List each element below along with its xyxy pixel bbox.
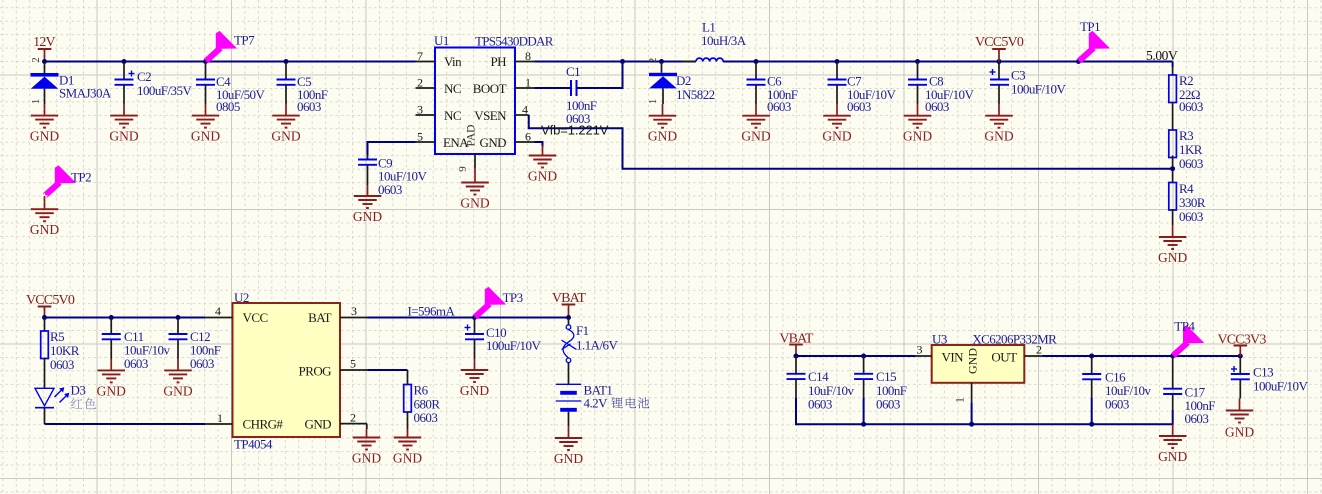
svg-text:GND: GND bbox=[1158, 449, 1187, 464]
ground for C8 bbox=[903, 104, 932, 144]
svg-text:NC: NC bbox=[444, 108, 461, 123]
wire VSEN feedback to divider bbox=[529, 115, 1173, 169]
svg-text:D2: D2 bbox=[676, 73, 691, 88]
ground for U2 pin2 bbox=[352, 429, 381, 466]
net label Vfb=1.221V bbox=[541, 123, 609, 138]
node junction C6 on 5V rail bbox=[754, 59, 759, 64]
pin 2 GND of U2 bbox=[340, 411, 367, 425]
ground for C6 bbox=[741, 104, 770, 144]
capacitor C4 10uF/50V bbox=[196, 62, 265, 115]
svg-text:0603: 0603 bbox=[767, 99, 791, 114]
svg-text:GND: GND bbox=[353, 209, 382, 224]
svg-text:0603: 0603 bbox=[1105, 397, 1129, 412]
test point TP3 bbox=[475, 287, 523, 317]
svg-text:100uF/10V: 100uF/10V bbox=[1011, 82, 1066, 97]
svg-text:R5: R5 bbox=[50, 329, 64, 344]
svg-text:GND: GND bbox=[648, 129, 677, 144]
capacitor C3 100uF/10V bbox=[990, 62, 1067, 105]
svg-text:0603: 0603 bbox=[124, 356, 148, 371]
pin 1 CHRG# of U2 bbox=[205, 411, 233, 425]
svg-text:0603: 0603 bbox=[190, 356, 214, 371]
node junction C12 on VCC rail bbox=[176, 315, 181, 320]
svg-text:C2: C2 bbox=[137, 69, 151, 84]
pin 5 ENA of U1 bbox=[416, 130, 436, 144]
diode D2 1N5822 schottky bbox=[647, 58, 715, 105]
capacitor C12 100nF bbox=[169, 318, 221, 372]
svg-text:TP3: TP3 bbox=[503, 290, 523, 305]
wire D3 cathode to U2 CHRG# bbox=[45, 408, 206, 424]
capacitor C15 100nF bbox=[854, 356, 907, 412]
svg-text:0603: 0603 bbox=[876, 397, 900, 412]
svg-text:10uH/3A: 10uH/3A bbox=[701, 33, 747, 48]
LED D3 red bbox=[35, 383, 85, 408]
resistor R3 1KR bbox=[1169, 128, 1203, 183]
ground for ldo rail bbox=[1158, 424, 1187, 464]
wire U1 pin6 to ground bbox=[535, 142, 543, 147]
svg-text:GND: GND bbox=[528, 169, 557, 184]
svg-text:C15: C15 bbox=[876, 369, 896, 384]
svg-text:Vin: Vin bbox=[444, 54, 462, 69]
power port 12V bbox=[33, 35, 55, 62]
node junction C4/TP7 on 12V rail bbox=[203, 59, 208, 64]
node junction bootstrap on PH wire bbox=[620, 59, 625, 64]
svg-text:4: 4 bbox=[215, 304, 221, 318]
svg-text:3: 3 bbox=[417, 103, 423, 117]
capacitor C6 100nF bbox=[747, 62, 798, 115]
svg-text:GND: GND bbox=[554, 451, 583, 466]
svg-text:PH: PH bbox=[490, 54, 506, 69]
ground for R6 bbox=[393, 429, 422, 466]
ground for C13 bbox=[1225, 399, 1254, 440]
svg-text:5: 5 bbox=[350, 357, 356, 371]
pin 2 OUT of U3 bbox=[1024, 343, 1042, 357]
svg-text:GND: GND bbox=[163, 383, 192, 398]
wire BOOT to C1 bbox=[535, 87, 572, 89]
node junction C11 on VCC rail bbox=[109, 315, 114, 320]
svg-text:1: 1 bbox=[953, 397, 967, 403]
svg-text:VCC5V0: VCC5V0 bbox=[26, 293, 75, 308]
svg-text:SMAJ30A: SMAJ30A bbox=[59, 86, 112, 101]
svg-text:TP4: TP4 bbox=[1174, 319, 1195, 334]
svg-text:0603: 0603 bbox=[808, 397, 832, 412]
ground for C12 bbox=[163, 359, 192, 399]
node junction C15 on VBAT rail bbox=[861, 354, 866, 359]
wire 5V rail corner down to R2 bbox=[1172, 62, 1174, 68]
wire VCC5V0 rail to U2 pin4 bbox=[45, 317, 206, 319]
ground for C3 bbox=[984, 104, 1013, 144]
test point TP1 bbox=[1079, 19, 1110, 61]
wire PROG to R6 bbox=[368, 369, 408, 371]
svg-text:R3: R3 bbox=[1179, 128, 1193, 143]
ground for U1 pin6 bbox=[528, 145, 557, 184]
test point TP7 bbox=[206, 31, 255, 61]
ground for C11 bbox=[97, 359, 126, 399]
capacitor C13 100uF/10V bbox=[1231, 356, 1309, 399]
pin 1 BOOT of U1 bbox=[515, 76, 535, 90]
capacitor C10 100uF/10V bbox=[465, 318, 542, 359]
svg-text:5.00V: 5.00V bbox=[1146, 48, 1178, 63]
value label red color for D3 bbox=[71, 398, 96, 409]
node junction C7 on 5V rail bbox=[835, 59, 840, 64]
wire U2 pin2 to ground bbox=[366, 424, 368, 429]
svg-text:1: 1 bbox=[217, 411, 223, 425]
svg-text:Vfb=1.221V: Vfb=1.221V bbox=[541, 123, 609, 138]
capacitor C7 10uF/10V bbox=[828, 62, 897, 115]
svg-text:C13: C13 bbox=[1253, 365, 1273, 380]
node junction C16 bottom bbox=[1089, 422, 1094, 427]
svg-text:TP7: TP7 bbox=[234, 33, 255, 48]
ground for D1 bbox=[30, 104, 59, 144]
ground for C5 bbox=[271, 104, 300, 144]
pin 4 VSEN of U1 bbox=[515, 103, 529, 117]
inductor L1 10uH/3A bbox=[696, 20, 747, 62]
capacitor C14 10uF/10v bbox=[787, 356, 855, 412]
ground for R4 bbox=[1158, 225, 1187, 265]
wire U3 OUT to VCC3V3 bbox=[1042, 355, 1241, 357]
node junction D2 on PH node bbox=[659, 59, 664, 64]
svg-text:R6: R6 bbox=[414, 383, 429, 398]
svg-text:OUT: OUT bbox=[991, 350, 1017, 365]
svg-text:GND: GND bbox=[460, 383, 489, 398]
test point TP2 bbox=[42, 165, 92, 199]
ground for C7 bbox=[822, 104, 851, 144]
node junction D1 on 12V rail bbox=[42, 59, 47, 64]
pin 2 NC of U1 bbox=[416, 76, 436, 90]
svg-text:GND: GND bbox=[903, 129, 932, 144]
svg-text:0603: 0603 bbox=[1185, 411, 1209, 426]
svg-text:GND: GND bbox=[984, 129, 1013, 144]
capacitor C9 10uF/10V bbox=[358, 155, 427, 197]
svg-text:GND: GND bbox=[109, 129, 138, 144]
svg-text:4.2V: 4.2V bbox=[584, 396, 609, 411]
node junction C5 on 12V rail bbox=[284, 59, 289, 64]
node junction C15 bottom bbox=[861, 422, 866, 427]
resistor R5 10KR bbox=[41, 318, 80, 389]
wire ground return rail bbox=[796, 398, 1173, 424]
node junction C2 on 12V rail bbox=[122, 59, 127, 64]
svg-text:TP2: TP2 bbox=[71, 170, 91, 185]
ground for U1 pad pin 9 bbox=[460, 168, 489, 211]
svg-text:0603: 0603 bbox=[50, 357, 74, 372]
wire U3 pin1 to rail bbox=[971, 403, 973, 424]
svg-text:3: 3 bbox=[917, 343, 923, 357]
svg-text:GND: GND bbox=[30, 129, 59, 144]
svg-text:0603: 0603 bbox=[1179, 209, 1203, 224]
power port VBAT charger output bbox=[552, 291, 587, 318]
power port VCC5V0 charger input bbox=[26, 293, 75, 318]
node junction VCC3V3/C13 bbox=[1238, 354, 1243, 359]
svg-text:VCC: VCC bbox=[243, 310, 268, 325]
value label 4.2V lithium battery for BAT1 bbox=[584, 396, 650, 411]
svg-text:0603: 0603 bbox=[847, 99, 871, 114]
op-amp U3 XC6206P332MR ldo bbox=[932, 332, 1057, 383]
svg-text:GND: GND bbox=[304, 417, 331, 432]
svg-text:PROG: PROG bbox=[299, 364, 332, 379]
svg-text:0603: 0603 bbox=[297, 99, 321, 114]
svg-text:1N5822: 1N5822 bbox=[676, 87, 715, 102]
svg-text:GND: GND bbox=[966, 348, 980, 374]
node junction U3 pin1 bottom bbox=[969, 422, 974, 427]
pin 3 NC of U1 bbox=[416, 103, 436, 117]
svg-text:GND: GND bbox=[191, 129, 220, 144]
svg-text:7: 7 bbox=[417, 49, 423, 63]
svg-text:0603: 0603 bbox=[1179, 156, 1203, 171]
op-amp U2 TP4054 charger IC bbox=[233, 290, 341, 452]
wire C1 to PH node bbox=[577, 62, 623, 89]
svg-text:GND: GND bbox=[271, 129, 300, 144]
svg-text:VSEN: VSEN bbox=[474, 108, 507, 123]
svg-text:BOOT: BOOT bbox=[473, 81, 507, 96]
svg-text:U1: U1 bbox=[434, 33, 449, 48]
capacitor C1 100nF bootstrap bbox=[566, 64, 597, 126]
power port VCC3V3 bbox=[1217, 333, 1266, 357]
wire 12V rail to U1 pin7 bbox=[45, 61, 416, 63]
pin 5 PROG of U2 bbox=[340, 357, 368, 371]
ground for C10 bbox=[460, 359, 489, 399]
svg-text:6: 6 bbox=[525, 130, 531, 144]
svg-text:5: 5 bbox=[417, 130, 423, 144]
pin 6 GND of U1 bbox=[515, 130, 535, 144]
svg-text:VIN: VIN bbox=[942, 350, 965, 365]
svg-text:GND: GND bbox=[1225, 425, 1254, 440]
svg-text:2: 2 bbox=[417, 76, 423, 90]
fuse F1 1.1A/6V bbox=[562, 318, 619, 363]
wire ENA to C9 bbox=[368, 142, 416, 155]
svg-text:12V: 12V bbox=[33, 35, 55, 50]
ground for BAT1 bbox=[554, 426, 583, 466]
svg-text:TPS5430DDAR: TPS5430DDAR bbox=[475, 34, 554, 49]
svg-text:D3: D3 bbox=[71, 383, 86, 398]
svg-text:2: 2 bbox=[30, 57, 42, 63]
power port VBAT ldo input bbox=[779, 332, 814, 357]
svg-text:100uF/10V: 100uF/10V bbox=[486, 338, 541, 353]
node junction VCC5V0 on 5V rail bbox=[997, 59, 1002, 64]
svg-text:1: 1 bbox=[30, 99, 42, 105]
node junction C14 on VBAT rail bbox=[794, 354, 799, 359]
svg-text:R2: R2 bbox=[1179, 73, 1193, 88]
capacitor C8 10uF/10V bbox=[908, 62, 974, 115]
node junction C17/TP4 on 3V3 rail bbox=[1170, 354, 1175, 359]
pin 3 BAT of U2 bbox=[340, 304, 368, 318]
svg-text:4: 4 bbox=[522, 103, 528, 117]
pin 1 GND of U3 bbox=[953, 383, 972, 403]
svg-text:F1: F1 bbox=[576, 323, 589, 338]
pin 4 VCC of U2 bbox=[205, 304, 233, 318]
ground for C2 bbox=[109, 104, 138, 144]
capacitor C2 100uF/35V bbox=[115, 62, 193, 105]
diode D1 TVS SMAJ30A bbox=[30, 57, 112, 104]
svg-text:VBAT: VBAT bbox=[779, 332, 814, 347]
svg-text:1: 1 bbox=[525, 76, 531, 90]
svg-text:U2: U2 bbox=[234, 290, 249, 305]
svg-text:VBAT: VBAT bbox=[552, 291, 587, 306]
inductor L1 pin leads bbox=[682, 61, 737, 63]
svg-text:0805: 0805 bbox=[216, 99, 240, 114]
pin 7 Vin of U1 bbox=[416, 49, 436, 63]
resistor R4 330R bbox=[1169, 181, 1206, 225]
svg-text:GND: GND bbox=[393, 451, 422, 466]
pin 8 PH of U1 bbox=[515, 49, 535, 63]
svg-text:GND: GND bbox=[97, 383, 126, 398]
node junction feedback divider bbox=[1170, 166, 1175, 171]
svg-text:330R: 330R bbox=[1179, 195, 1206, 210]
svg-text:100uF/35V: 100uF/35V bbox=[137, 83, 192, 98]
wire VBAT to U3 VIN bbox=[796, 355, 916, 357]
svg-text:CHRG#: CHRG# bbox=[243, 417, 284, 432]
pin 9 PAD of U1 bbox=[457, 154, 475, 172]
svg-text:C14: C14 bbox=[808, 369, 829, 384]
svg-text:10KR: 10KR bbox=[50, 343, 80, 358]
wire C15 bottom to rail bbox=[863, 398, 865, 424]
svg-text:U3: U3 bbox=[932, 332, 947, 347]
svg-text:1: 1 bbox=[647, 99, 659, 105]
svg-text:1.1A/6V: 1.1A/6V bbox=[576, 338, 618, 353]
svg-text:TP1: TP1 bbox=[1080, 19, 1100, 34]
test point TP4 bbox=[1173, 319, 1204, 356]
ground for C9 bbox=[353, 185, 382, 224]
resistor R2 22ohm bbox=[1169, 67, 1203, 130]
wire BAT to VBAT node bbox=[368, 317, 569, 319]
power port VCC5V0 top bbox=[975, 35, 1024, 62]
svg-text:GND: GND bbox=[822, 129, 851, 144]
svg-text:GND: GND bbox=[741, 129, 770, 144]
svg-text:0603: 0603 bbox=[378, 182, 402, 197]
node junction R5 on VCC rail bbox=[42, 315, 47, 320]
node junction TP1 on 5V rail bbox=[1076, 59, 1081, 64]
svg-text:GND: GND bbox=[1158, 250, 1187, 265]
battery BAT1 4.2V lithium bbox=[556, 363, 613, 426]
svg-text:PAD: PAD bbox=[466, 125, 478, 147]
capacitor C5 100nF bbox=[277, 62, 328, 115]
pin 3 VIN of U3 bbox=[916, 343, 932, 357]
node junction C8 on 5V rail bbox=[915, 59, 920, 64]
svg-text:0603: 0603 bbox=[925, 99, 949, 114]
resistor R6 680R bbox=[404, 370, 441, 429]
svg-text:GND: GND bbox=[460, 196, 489, 211]
node junction C16 on 3V3 rail bbox=[1089, 354, 1094, 359]
capacitor C11 10uF/10v bbox=[102, 318, 171, 372]
current label I=596mA bbox=[408, 304, 456, 319]
ground for C4 bbox=[191, 104, 220, 144]
node junction VBAT/F1 bbox=[566, 315, 571, 320]
ground for TP2 bbox=[30, 196, 59, 237]
svg-text:1KR: 1KR bbox=[1179, 142, 1203, 157]
svg-text:VCC3V3: VCC3V3 bbox=[1217, 333, 1266, 348]
ground for D2 bbox=[648, 104, 677, 144]
svg-text:0603: 0603 bbox=[414, 410, 438, 425]
svg-text:NC: NC bbox=[444, 81, 461, 96]
svg-text:I=596mA: I=596mA bbox=[408, 304, 456, 319]
wire C16 bottom to rail bbox=[1091, 398, 1093, 424]
capacitor C17 100nF bbox=[1163, 356, 1215, 426]
svg-text:C3: C3 bbox=[1011, 68, 1025, 83]
op-amp U1 TPS5430DDAR buck regulator bbox=[434, 33, 554, 154]
svg-text:9: 9 bbox=[457, 166, 469, 172]
svg-text:8: 8 bbox=[525, 49, 531, 63]
svg-text:2: 2 bbox=[1036, 343, 1042, 357]
svg-text:R4: R4 bbox=[1179, 181, 1194, 196]
node junction C10/TP3 bbox=[472, 315, 477, 320]
net label 5.00V bbox=[1146, 48, 1178, 63]
svg-text:VCC5V0: VCC5V0 bbox=[975, 35, 1024, 50]
capacitor C16 10uF/10v bbox=[1082, 356, 1151, 412]
svg-text:100uF/10V: 100uF/10V bbox=[1253, 379, 1308, 394]
svg-text:2: 2 bbox=[350, 411, 356, 425]
wire PH to inductor L1 bbox=[535, 61, 697, 63]
svg-text:0603: 0603 bbox=[1179, 99, 1203, 114]
svg-text:XC6206P332MR: XC6206P332MR bbox=[972, 332, 1057, 347]
svg-text:GND: GND bbox=[30, 222, 59, 237]
svg-text:GND: GND bbox=[352, 451, 381, 466]
wire L1 to output rail bbox=[723, 61, 1172, 63]
svg-text:GND: GND bbox=[479, 135, 506, 150]
svg-text:BAT: BAT bbox=[308, 310, 332, 325]
svg-text:2: 2 bbox=[647, 58, 659, 64]
svg-text:TP4054: TP4054 bbox=[234, 437, 273, 452]
svg-text:3: 3 bbox=[351, 304, 357, 318]
svg-text:C1: C1 bbox=[566, 64, 580, 79]
